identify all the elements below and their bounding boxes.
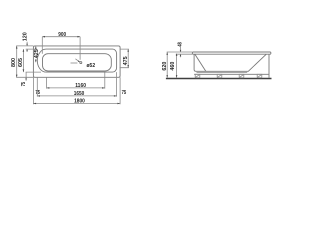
svg-text:605: 605 (18, 58, 24, 67)
svg-text:1650: 1650 (74, 91, 85, 97)
svg-text:1160: 1160 (75, 83, 86, 89)
svg-text:75: 75 (35, 90, 40, 96)
svg-text:800: 800 (11, 58, 17, 67)
svg-text:48: 48 (178, 42, 184, 46)
svg-text:900: 900 (58, 32, 66, 38)
svg-text:620: 620 (162, 62, 168, 71)
svg-text:120: 120 (22, 32, 28, 41)
svg-text:75: 75 (21, 82, 27, 86)
svg-text:1800: 1800 (74, 99, 85, 105)
svg-text:475: 475 (123, 56, 129, 65)
svg-text:75: 75 (122, 90, 127, 96)
svg-text:ø52: ø52 (87, 63, 96, 69)
svg-text:460: 460 (170, 62, 176, 71)
svg-text:425: 425 (34, 49, 40, 58)
